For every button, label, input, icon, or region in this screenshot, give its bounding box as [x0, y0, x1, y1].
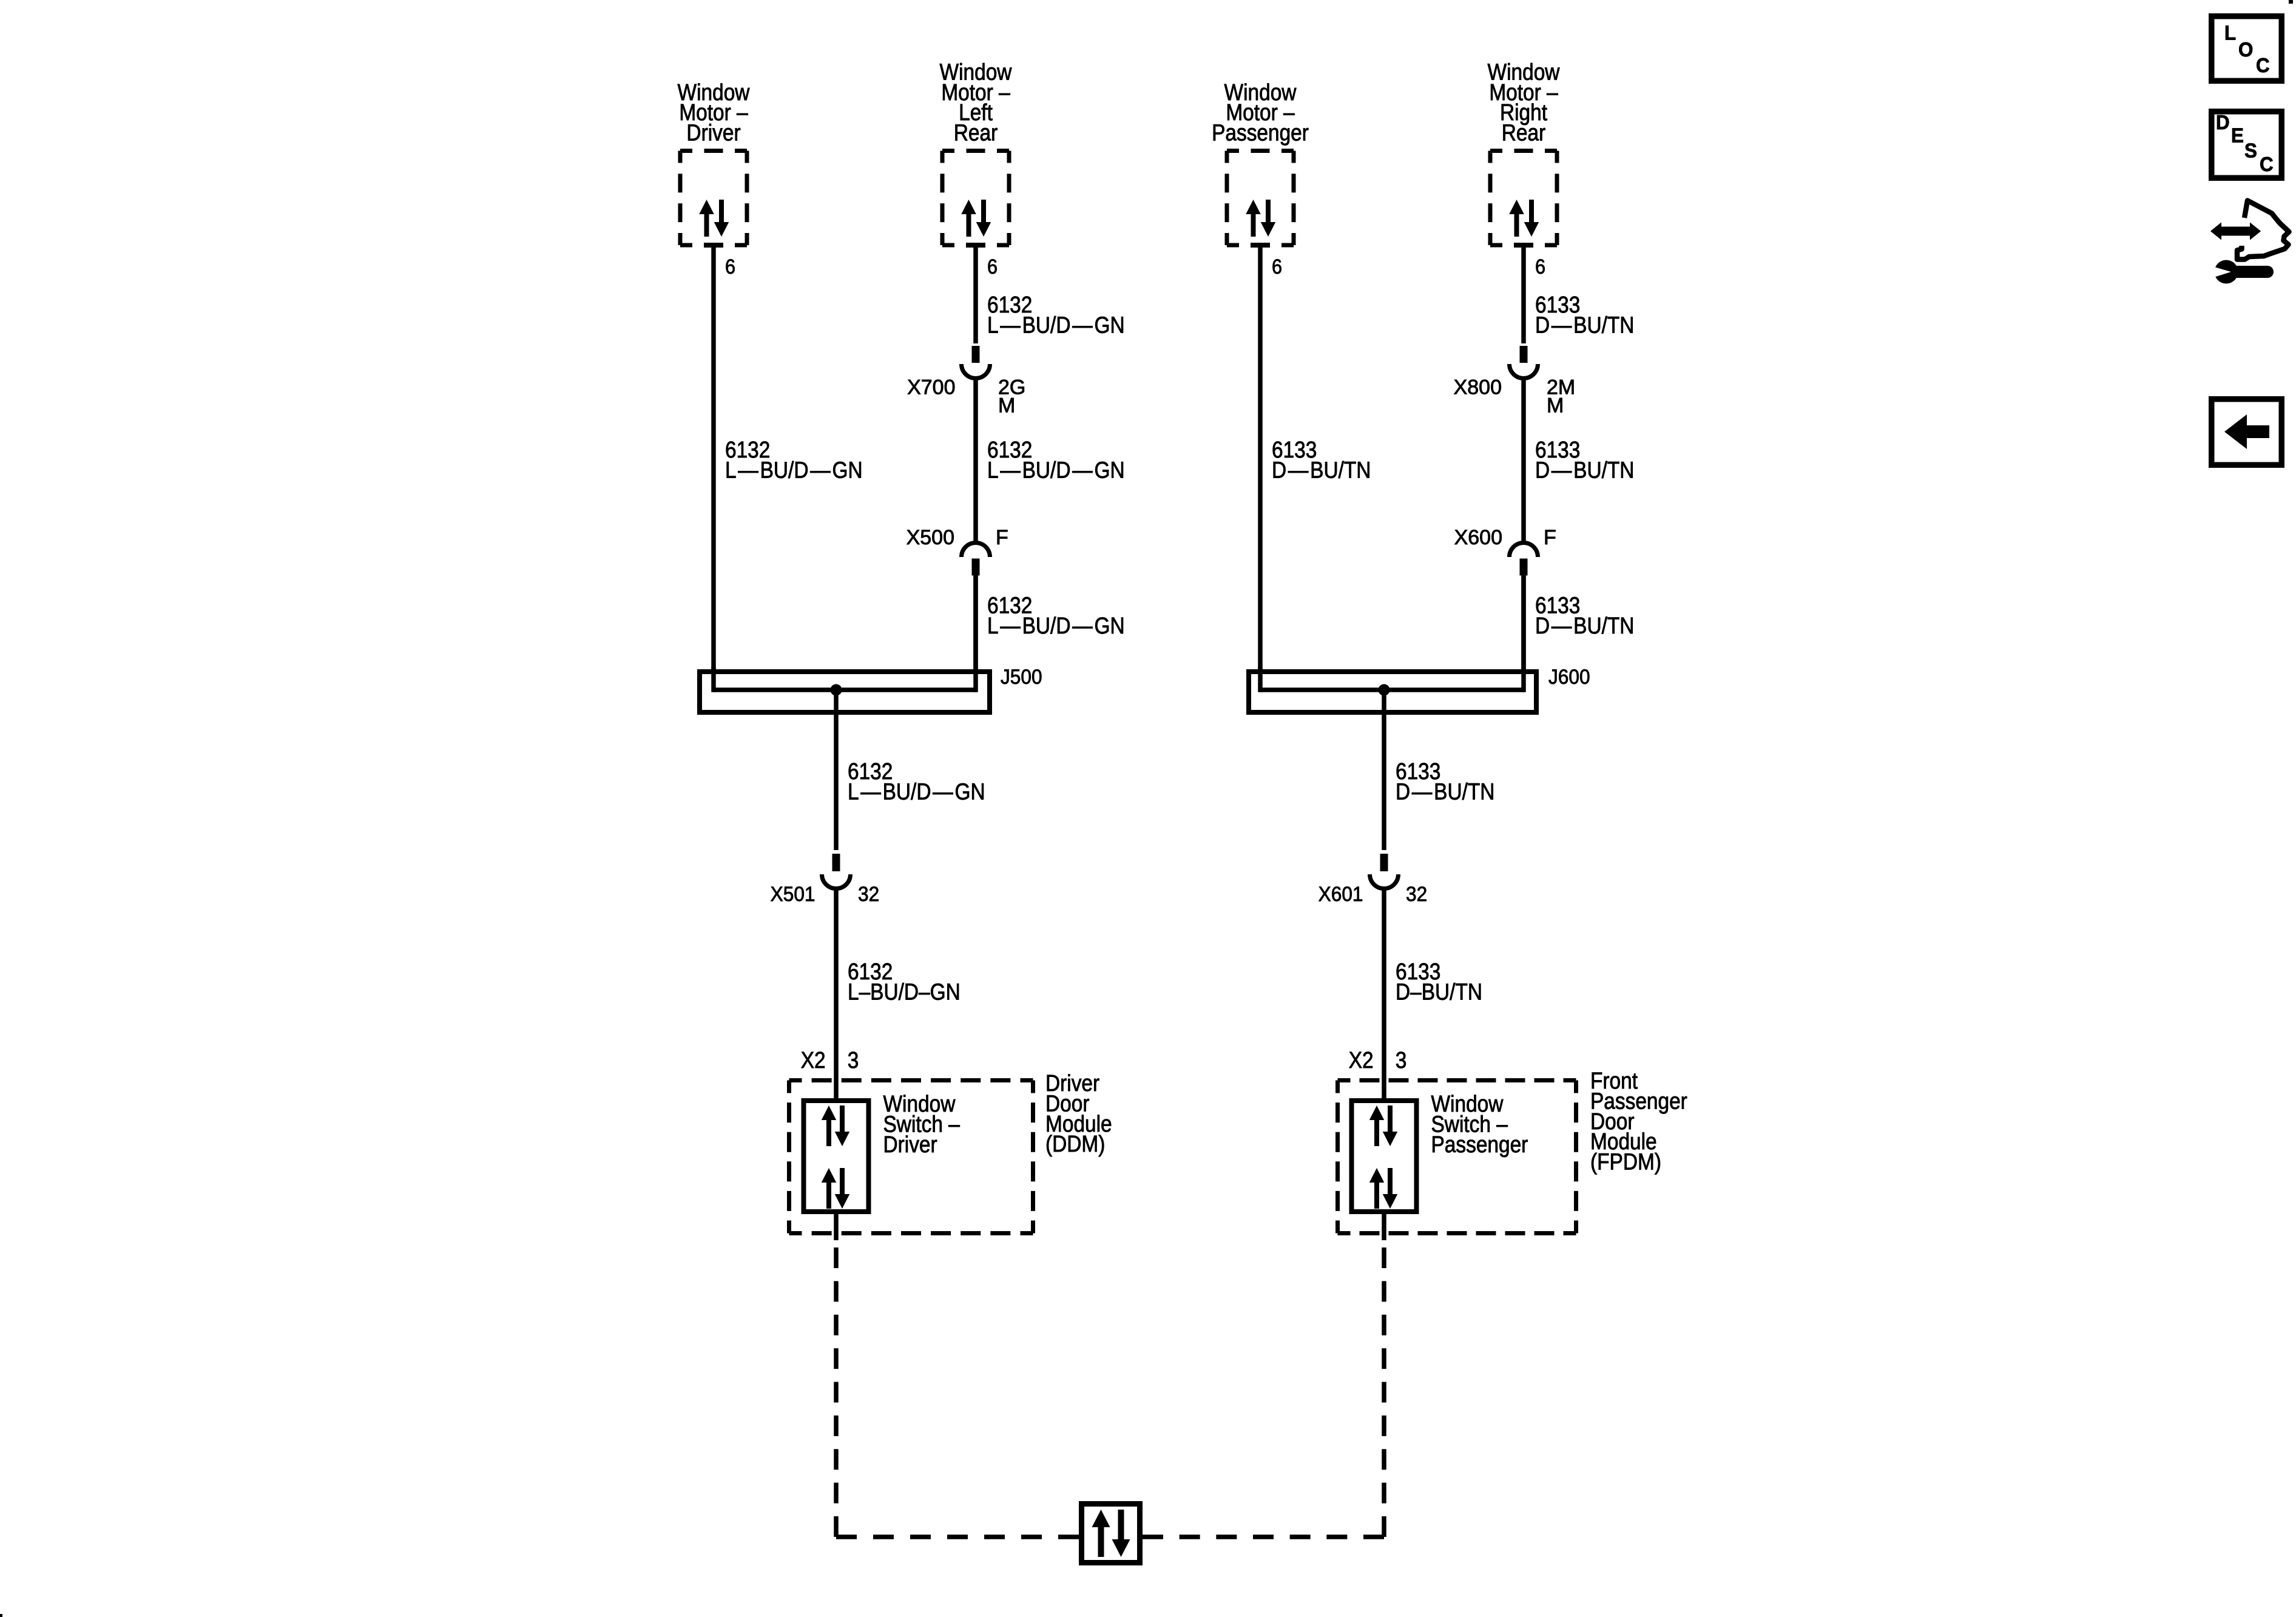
svg-text:X500: X500: [907, 526, 954, 549]
svg-text:6: 6: [1272, 255, 1282, 279]
svg-text:S: S: [2244, 140, 2257, 162]
svg-text:6: 6: [725, 255, 735, 279]
svg-text:6: 6: [1535, 255, 1545, 279]
svg-text:O: O: [2238, 38, 2253, 61]
svg-text:J500: J500: [1001, 665, 1042, 688]
svg-text:X601: X601: [1319, 882, 1363, 905]
svg-text:L — BU/D — GN: L — BU/D — GN: [987, 312, 1125, 337]
svg-text:J600: J600: [1548, 665, 1590, 688]
svg-text:X501: X501: [771, 882, 815, 905]
svg-text:C: C: [2256, 54, 2270, 76]
svg-text:L: L: [2224, 22, 2236, 44]
svg-text:3: 3: [848, 1047, 859, 1073]
svg-text:X2: X2: [801, 1047, 826, 1073]
svg-text:D–BU/TN: D–BU/TN: [1396, 979, 1482, 1004]
svg-text:E: E: [2231, 124, 2244, 147]
svg-text:L — BU/D — GN: L — BU/D — GN: [725, 457, 863, 482]
svg-text:D — BU/TN: D — BU/TN: [1535, 613, 1634, 638]
svg-text:Passenger: Passenger: [1212, 120, 1309, 146]
svg-text:M: M: [1547, 394, 1564, 417]
svg-text:D — BU/TN: D — BU/TN: [1396, 778, 1494, 804]
svg-text:(DDM): (DDM): [1045, 1131, 1105, 1156]
svg-text:Rear: Rear: [1502, 120, 1546, 146]
svg-text:L — BU/D — GN: L — BU/D — GN: [987, 457, 1125, 482]
svg-text:32: 32: [858, 882, 879, 905]
svg-text:6: 6: [987, 255, 998, 279]
svg-text:L — BU/D — GN: L — BU/D — GN: [987, 613, 1125, 638]
svg-text:Rear: Rear: [954, 120, 998, 146]
svg-text:X2: X2: [1349, 1047, 1374, 1073]
svg-text:M: M: [998, 394, 1015, 417]
svg-text:D — BU/TN: D — BU/TN: [1535, 457, 1634, 482]
svg-text:F: F: [996, 526, 1008, 549]
svg-text:F: F: [1544, 526, 1556, 549]
svg-text:C: C: [2260, 153, 2274, 175]
svg-text:Driver: Driver: [883, 1132, 937, 1157]
svg-text:32: 32: [1406, 882, 1427, 905]
svg-text:3: 3: [1396, 1047, 1407, 1073]
svg-text:L–BU/D–GN: L–BU/D–GN: [848, 979, 961, 1004]
svg-text:L — BU/D — GN: L — BU/D — GN: [848, 778, 985, 804]
svg-text:Passenger: Passenger: [1431, 1132, 1528, 1157]
svg-text:D: D: [2216, 111, 2230, 133]
svg-text:X800: X800: [1454, 376, 1502, 399]
svg-text:(FPDM): (FPDM): [1590, 1149, 1661, 1175]
svg-text:X600: X600: [1454, 526, 1502, 549]
svg-text:Driver: Driver: [686, 120, 740, 146]
svg-text:D — BU/TN: D — BU/TN: [1272, 457, 1371, 482]
svg-text:X700: X700: [907, 376, 955, 399]
svg-text:D — BU/TN: D — BU/TN: [1535, 312, 1634, 337]
